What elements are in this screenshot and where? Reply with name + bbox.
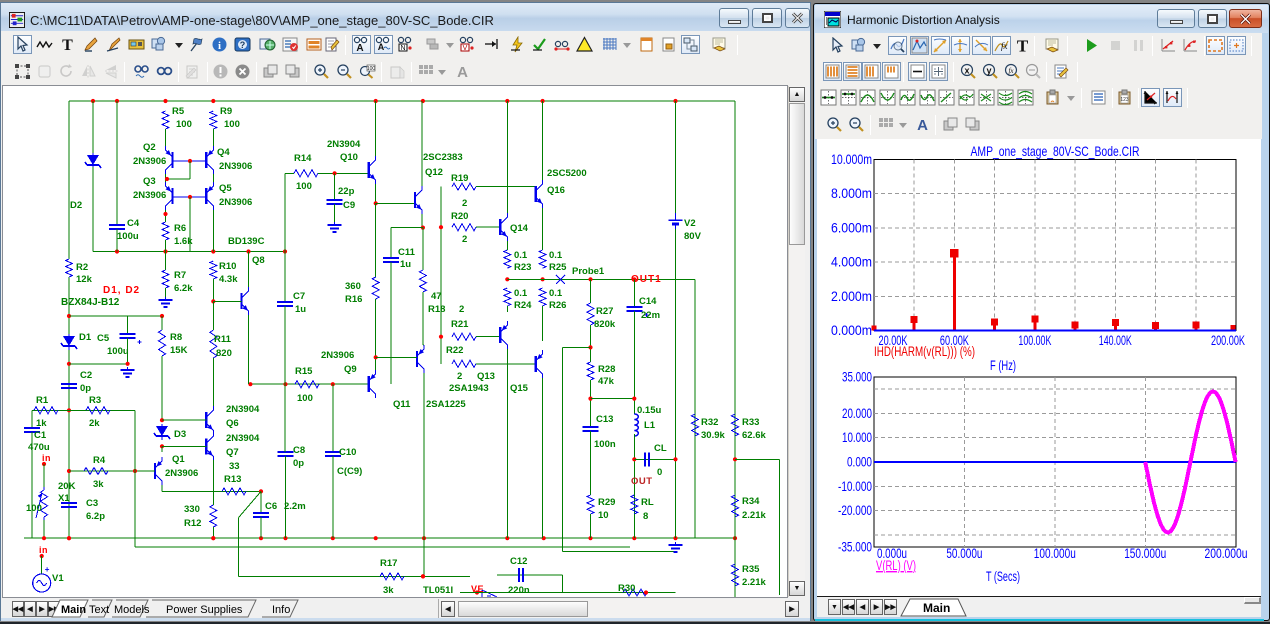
svg-text:100.00K: 100.00K [1018,332,1051,348]
svg-text:R26: R26 [549,300,566,311]
svg-text:T (Secs): T (Secs) [986,568,1020,584]
svg-text:-20.000: -20.000 [838,502,872,518]
svg-text:C7: C7 [293,291,305,302]
svg-text:200.00K: 200.00K [1211,332,1245,348]
svg-text:A: A [378,42,385,52]
svg-text:R5: R5 [172,106,185,117]
svg-text:T: T [62,37,73,53]
svg-text:R1: R1 [36,395,49,406]
svg-text:C11: C11 [398,247,416,258]
svg-text:0: 0 [657,467,662,478]
svg-text:35.000: 35.000 [842,369,872,385]
svg-text:2SA1943: 2SA1943 [449,383,489,394]
svg-text:A: A [356,43,363,53]
svg-text:100: 100 [26,503,42,514]
svg-text:Q1: Q1 [172,454,185,465]
svg-text:Q5: Q5 [219,183,232,194]
svg-text:R13: R13 [224,474,241,485]
svg-text:fx: fx [1001,41,1008,51]
svg-text:i: i [218,40,221,52]
svg-text:C5: C5 [97,333,110,344]
svg-text:R20: R20 [451,211,468,222]
svg-text:2N3906: 2N3906 [219,161,252,172]
svg-text:R22: R22 [446,345,463,356]
svg-text:R9: R9 [220,106,232,117]
svg-text:R29: R29 [598,497,615,508]
svg-text:R35: R35 [742,564,760,575]
svg-text:in: in [39,545,48,555]
svg-text:2N3904: 2N3904 [327,139,361,150]
svg-text:820: 820 [216,348,232,359]
svg-text:10.000m: 10.000m [831,151,872,167]
svg-text:C6: C6 [265,501,277,512]
svg-text:C1: C1 [34,430,47,441]
svg-text:fx: fx [1008,67,1014,75]
svg-text:62.6k: 62.6k [742,430,766,441]
svg-text:20K: 20K [58,481,76,492]
svg-text:R18: R18 [428,304,445,315]
svg-text:R4: R4 [93,455,106,466]
svg-text:47k: 47k [598,376,615,387]
svg-text:Info: Info [272,604,290,616]
svg-text:F (Hz): F (Hz) [990,357,1016,373]
svg-text:Q14: Q14 [510,223,529,234]
svg-text:6.2p: 6.2p [86,511,105,522]
svg-text:R10: R10 [219,261,236,272]
svg-text:N: N [400,45,405,52]
svg-text:3k: 3k [93,479,104,490]
svg-text:+: + [45,565,50,574]
svg-text:V2: V2 [684,218,696,229]
svg-text:0.1: 0.1 [549,288,563,299]
svg-text:V1: V1 [52,573,64,584]
svg-text:A: A [917,117,928,133]
svg-text:220n: 220n [508,585,530,596]
svg-text:2SA1225: 2SA1225 [426,399,466,410]
svg-text:BD139C: BD139C [228,236,265,247]
svg-text:C10: C10 [339,447,356,458]
svg-text:2SC2383: 2SC2383 [423,152,463,163]
svg-text:2N3904: 2N3904 [226,404,260,415]
svg-text:IHD(HARM(v(RL))) (%): IHD(HARM(v(RL))) (%) [874,343,975,359]
svg-text:360: 360 [345,281,361,292]
svg-text:C4: C4 [127,218,140,229]
svg-text:R27: R27 [596,306,613,317]
svg-text:1u: 1u [400,259,411,270]
svg-text:Q9: Q9 [344,364,357,375]
svg-text:-35.000: -35.000 [838,539,872,555]
svg-text:150.000u: 150.000u [1124,545,1166,561]
svg-text:12k: 12k [76,274,93,285]
svg-text:140.00K: 140.00K [1099,332,1132,348]
svg-text:y: y [986,66,991,76]
svg-text:Probe1: Probe1 [572,266,605,277]
svg-text:Q10: Q10 [340,152,358,163]
svg-text:100: 100 [296,181,312,192]
svg-text:in: in [42,453,51,463]
svg-text:D2: D2 [70,200,82,211]
svg-text:15K: 15K [170,345,188,356]
svg-text:R21: R21 [451,319,469,330]
svg-text:A: A [457,64,468,80]
svg-text:2N3904: 2N3904 [226,433,260,444]
svg-text:0p: 0p [293,458,304,469]
svg-text:2.000m: 2.000m [831,288,872,304]
svg-text:C9: C9 [343,200,355,211]
svg-text:Text: Text [89,604,109,616]
svg-text:100: 100 [224,119,240,130]
svg-text:Main: Main [923,601,950,615]
svg-text:D1, D2: D1, D2 [103,285,140,296]
svg-text:R17: R17 [380,558,397,569]
svg-text:0.000m: 0.000m [831,322,872,338]
svg-text:Q7: Q7 [226,447,239,458]
svg-text:6.2k: 6.2k [174,283,193,294]
svg-text:200.000u: 200.000u [1205,545,1248,561]
svg-text:R19: R19 [451,173,468,184]
svg-text:Q11: Q11 [393,399,411,410]
svg-text:0p: 0p [80,383,91,394]
svg-text:C12: C12 [510,556,527,567]
svg-text:R28: R28 [598,364,615,375]
svg-text:2N3906: 2N3906 [133,190,166,201]
svg-text:R15: R15 [295,366,313,377]
svg-text:Q12: Q12 [425,167,443,178]
svg-text:820k: 820k [594,319,616,330]
svg-text:20.000: 20.000 [842,405,872,421]
svg-text:0.1: 0.1 [514,288,528,299]
svg-text:2.21k: 2.21k [742,577,766,588]
svg-text:8.000m: 8.000m [831,185,872,201]
svg-text:0.000: 0.000 [847,454,872,470]
svg-text:CL: CL [654,443,667,454]
svg-text:Models: Models [114,604,150,616]
svg-text:470u: 470u [28,442,50,453]
svg-text:Q2: Q2 [143,142,156,153]
svg-text:TL051I: TL051I [423,585,453,596]
svg-text:R12: R12 [184,518,201,529]
svg-text:2N3906: 2N3906 [165,468,198,479]
svg-text:R33: R33 [742,417,759,428]
svg-text:T: T [1017,37,1029,54]
svg-text:8: 8 [643,511,648,522]
svg-text:Q3: Q3 [143,176,156,187]
svg-text:x: x [964,66,969,76]
svg-text:R8: R8 [170,332,182,343]
svg-text:2: 2 [462,198,467,209]
svg-text:2: 2 [457,371,462,382]
svg-text:R6: R6 [174,223,186,234]
svg-text:2.21k: 2.21k [742,510,766,521]
svg-text:-10.000: -10.000 [838,478,872,494]
svg-text:?: ? [240,40,246,50]
svg-text:C8: C8 [293,445,305,456]
svg-text:2N3906: 2N3906 [219,197,252,208]
svg-text:C13: C13 [596,414,613,425]
svg-text:R30: R30 [618,583,635,594]
svg-text:RL: RL [641,497,654,508]
svg-text:V(RL) (V): V(RL) (V) [876,557,916,573]
svg-text:2: 2 [459,304,464,315]
svg-text:BZX84J-B12: BZX84J-B12 [61,297,120,308]
svg-text:10.000: 10.000 [842,429,872,445]
svg-text:V: V [463,45,468,52]
svg-text:R32: R32 [701,417,718,428]
svg-text:100: 100 [176,119,192,130]
svg-text:Main: Main [61,604,86,616]
svg-text:2SC5200: 2SC5200 [547,168,587,179]
svg-text:2N3906: 2N3906 [321,350,354,361]
svg-text:X1: X1 [58,493,70,504]
svg-text:C14: C14 [639,296,657,307]
svg-text:2N3906: 2N3906 [133,156,166,167]
svg-text:C3: C3 [86,498,98,509]
svg-text:R25: R25 [549,262,567,273]
svg-text:80V: 80V [684,231,702,242]
svg-text:Q16: Q16 [547,185,565,196]
svg-text:OUT1: OUT1 [631,274,662,285]
svg-text:100u: 100u [117,231,139,242]
svg-text:50.000u: 50.000u [946,545,982,561]
svg-text:3k: 3k [383,585,394,596]
svg-text:R3: R3 [89,395,101,406]
svg-text:0.15u: 0.15u [637,405,661,416]
svg-text:C(C9): C(C9) [337,466,362,477]
svg-text:2.2m: 2.2m [284,501,306,512]
svg-text:R16: R16 [345,294,362,305]
svg-text:33: 33 [229,461,240,472]
svg-text:R14: R14 [294,153,312,164]
svg-text:C2: C2 [80,370,92,381]
svg-text:1u: 1u [295,304,306,315]
svg-text:D3: D3 [174,429,186,440]
svg-text:330: 330 [184,504,200,515]
svg-text:Q15: Q15 [510,383,529,394]
svg-text:0.1: 0.1 [514,250,528,261]
svg-text:4.3k: 4.3k [219,274,238,285]
svg-text:2: 2 [462,234,467,245]
svg-text:OUT: OUT [631,476,653,487]
svg-text:R7: R7 [174,270,186,281]
svg-text:6.000m: 6.000m [831,219,872,235]
svg-text:0.1: 0.1 [549,250,563,261]
svg-text:123: 123 [1120,97,1129,103]
svg-text:Power Supplies: Power Supplies [166,604,243,616]
svg-text:100n: 100n [594,439,616,450]
svg-text:47: 47 [431,291,442,302]
svg-text:R34: R34 [742,496,760,507]
svg-text:R24: R24 [514,300,532,311]
svg-text:22m: 22m [641,310,660,321]
svg-text:Q6: Q6 [226,418,239,429]
svg-text:100: 100 [297,393,313,404]
svg-text:D1: D1 [79,332,92,343]
svg-text:Q8: Q8 [252,255,265,266]
svg-text:100u: 100u [107,346,129,357]
svg-text:10: 10 [598,510,609,521]
svg-text:Q13: Q13 [477,371,495,382]
svg-text:22p: 22p [338,186,355,197]
svg-text:2k: 2k [89,418,100,429]
svg-text:4.000m: 4.000m [831,254,872,270]
svg-text:100.000u: 100.000u [1034,545,1076,561]
svg-text:AMP_one_stage_80V-SC_Bode.CIR: AMP_one_stage_80V-SC_Bode.CIR [971,143,1140,159]
svg-text:R11: R11 [214,334,232,345]
svg-text:Q4: Q4 [217,147,230,158]
svg-text:R2: R2 [76,262,88,273]
svg-text:100: 100 [367,66,376,72]
svg-text:R23: R23 [514,262,531,273]
svg-text:30.9k: 30.9k [701,430,725,441]
svg-text:L1: L1 [644,420,656,431]
